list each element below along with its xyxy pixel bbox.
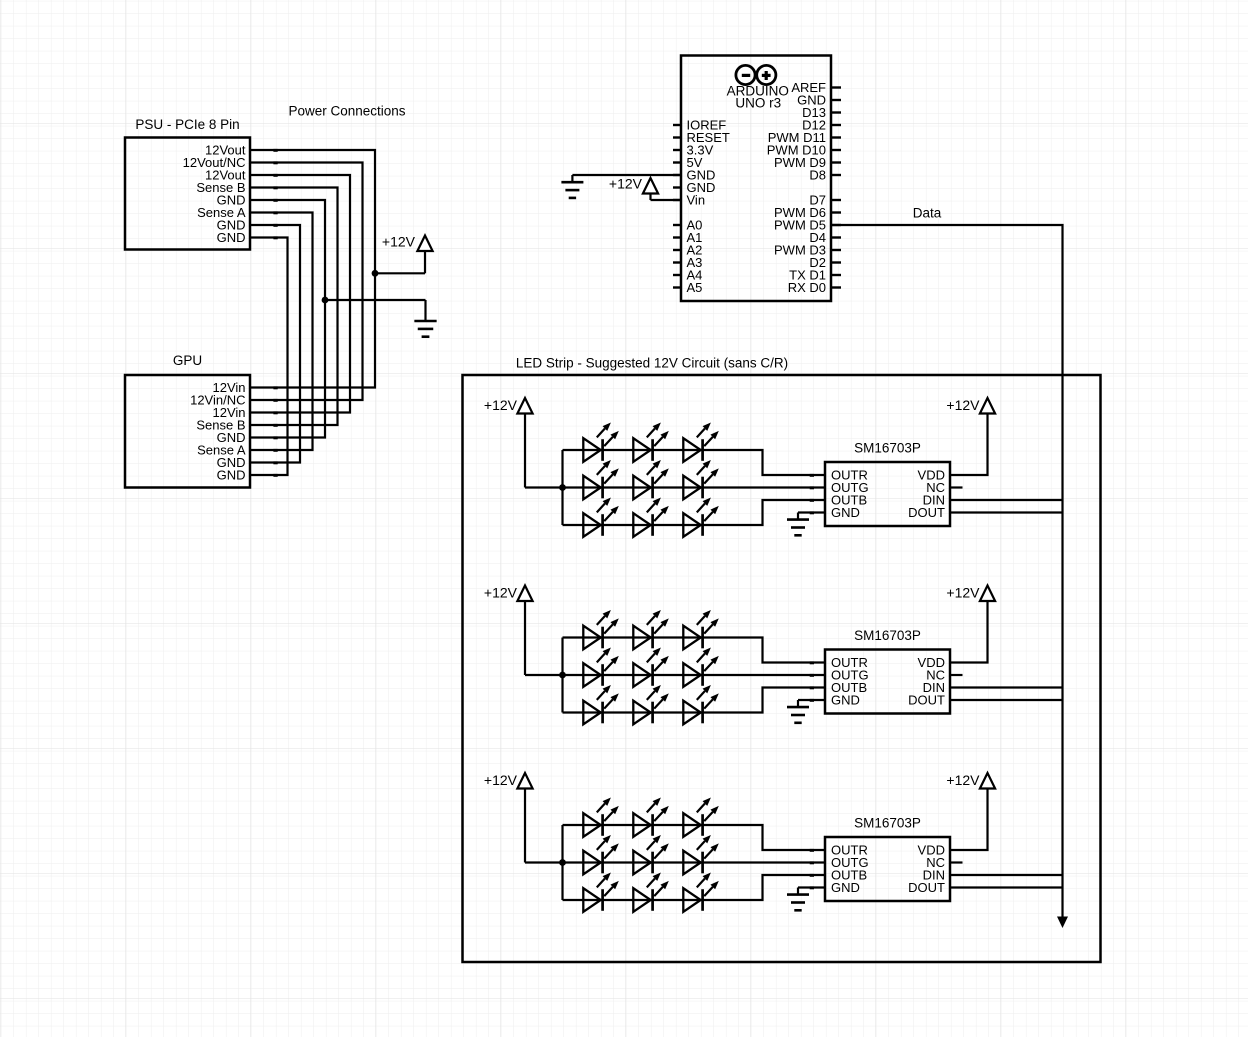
svg-text:SM16703P: SM16703P <box>854 441 921 456</box>
pin U1 right D13 <box>802 105 841 120</box>
svg-text:+12V: +12V <box>946 397 980 413</box>
wire DIN block1 <box>950 499 1063 501</box>
LED block3 row1 col2 <box>633 798 669 837</box>
pin J2.8 GND <box>217 468 246 483</box>
pin J2.2 12Vin/NC <box>190 393 245 408</box>
connector J1 PSU - PCIe 8 Pin <box>125 117 250 250</box>
pin U2.DIN <box>923 493 945 508</box>
pin U2.OUTR <box>810 468 868 483</box>
wire LED row3 block1 to OUTB <box>563 500 826 525</box>
pin U1 right RX D0 <box>788 280 841 295</box>
power +12V (PSU rail) <box>382 234 433 252</box>
pin U1 right PWM D9 <box>774 155 841 170</box>
LED block2 row3 col3 <box>683 685 719 724</box>
label Data <box>913 206 942 221</box>
LED block1 row1 col3 <box>683 423 719 462</box>
pin U2.OUTB <box>810 493 867 508</box>
pin U4.OUTB <box>810 868 867 883</box>
pin U1 right AREF <box>791 80 841 95</box>
LED block1 row1 col1 <box>583 423 619 462</box>
chip U2 SM16703P <box>825 441 950 527</box>
arrowhead end of chain <box>1057 917 1068 929</box>
label Power Connections <box>288 104 405 119</box>
svg-text:GND: GND <box>831 880 860 895</box>
pin U1 left 5V <box>673 155 703 170</box>
power +12V Vin <box>609 176 658 194</box>
LED block3 row3 col3 <box>683 873 719 912</box>
pin U1 right PWM D3 <box>774 243 841 258</box>
pin U2.OUTG <box>810 480 869 495</box>
pin U1 right GND <box>797 93 841 108</box>
pin U1 right D12 <box>802 118 841 133</box>
wire J1.2 to J2.2 <box>250 161 363 401</box>
wire GND block2 <box>798 699 825 701</box>
pin U4.OUTR <box>810 843 868 858</box>
pin U4.DIN <box>923 868 945 883</box>
svg-text:LED Strip - Suggested 12V Circ: LED Strip - Suggested 12V Circuit (sans … <box>516 356 788 371</box>
wire LED row1 block3 to OUTR <box>563 825 826 850</box>
wire VDD block3 <box>950 789 988 851</box>
svg-text:+12V: +12V <box>484 397 518 413</box>
wire DOUT block2 <box>950 699 1063 701</box>
pin U3.OUTR <box>810 655 868 670</box>
junction node LED rail block1 <box>559 484 566 491</box>
pin J2.6 Sense A <box>197 443 246 458</box>
ground PSU rail <box>414 321 436 337</box>
svg-text:+12V: +12V <box>484 585 518 601</box>
wire LED row2 block2 to OUTG <box>563 674 826 676</box>
pin J1.5 GND <box>217 193 246 208</box>
power +12V block1 right <box>946 397 995 413</box>
pin U4.GND <box>810 880 860 895</box>
pin U2.VDD <box>918 468 945 483</box>
LED block2 row1 col3 <box>683 610 719 649</box>
connector J2 GPU <box>125 353 250 488</box>
pin U1 right D8 <box>809 168 841 183</box>
pin U1 right D4 <box>809 230 841 245</box>
wire DIN block2 <box>950 686 1063 688</box>
pin U2.GND <box>810 505 860 520</box>
svg-text:GND: GND <box>217 468 246 483</box>
LED block1 row2 col2 <box>633 460 669 499</box>
svg-text:Power Connections: Power Connections <box>288 104 405 119</box>
LED block2 row2 col1 <box>583 648 619 687</box>
LED block1 row3 col1 <box>583 498 619 537</box>
wire J1.8 to J2.8 <box>250 236 288 476</box>
wire J1.6 to J2.6 <box>250 211 313 451</box>
pin U1 left GND <box>673 180 715 195</box>
pin U3.DOUT <box>908 693 945 708</box>
pin U1 right TX D1 <box>789 268 841 283</box>
LED block1 row1 col2 <box>633 423 669 462</box>
svg-text:RX D0: RX D0 <box>788 280 826 295</box>
LED strip container box <box>463 375 1101 962</box>
power +12V block3 right <box>946 772 995 788</box>
label ARDUINO UNO r3 <box>727 84 789 111</box>
power +12V block1 left <box>484 397 533 487</box>
LED block3 row2 col3 <box>683 835 719 874</box>
junction node LED rail block2 <box>559 672 566 679</box>
label LED Strip - Suggested 12V Circuit (sans C/R) <box>516 356 788 371</box>
pin U1 left A1 <box>673 230 702 245</box>
pin U3.VDD <box>918 655 945 670</box>
LED block3 row2 col1 <box>583 835 619 874</box>
wire +12V feed block3 <box>525 861 563 863</box>
wire LED row1 block2 to OUTR <box>563 638 826 663</box>
LED block3 row3 col2 <box>633 873 669 912</box>
pin U1 left Vin <box>673 193 705 208</box>
svg-text:DOUT: DOUT <box>908 505 945 520</box>
wire VDD block1 <box>950 414 988 476</box>
pin U1 left A0 <box>673 218 702 233</box>
wire +12V feed block1 <box>525 486 563 488</box>
LED block1 row2 col3 <box>683 460 719 499</box>
power +12V block3 left <box>484 772 533 862</box>
svg-text:DOUT: DOUT <box>908 880 945 895</box>
pin J1.1 12Vout <box>205 143 246 158</box>
wire LED row2 block3 to OUTG <box>563 861 826 863</box>
svg-text:Vin: Vin <box>687 193 706 208</box>
wire NC stub block2 <box>950 674 963 676</box>
pin U3.NC <box>926 668 945 683</box>
ground block3 <box>787 888 809 911</box>
LED block3 row3 col1 <box>583 873 619 912</box>
ground block2 <box>787 700 809 723</box>
pin U3.GND <box>810 693 860 708</box>
wire LED rail vertical block3 <box>561 825 563 900</box>
svg-text:D8: D8 <box>809 168 826 183</box>
pin J2.4 Sense B <box>196 418 245 433</box>
pin U1 right PWM D5 <box>774 218 841 233</box>
pin U1 right D2 <box>809 255 841 270</box>
LED block2 row1 col2 <box>633 610 669 649</box>
pin U2.DOUT <box>908 505 945 520</box>
LED block1 row3 col2 <box>633 498 669 537</box>
wire J1.4 to J2.4 <box>250 186 338 426</box>
wire LED rail vertical block2 <box>561 638 563 713</box>
svg-text:Data: Data <box>913 206 942 221</box>
pin U3.OUTB <box>810 680 867 695</box>
wire NC stub block3 <box>950 861 963 863</box>
pin J1.6 Sense A <box>197 205 246 220</box>
wire LED row3 block3 to OUTB <box>563 875 826 900</box>
LED block3 row1 col1 <box>583 798 619 837</box>
wire Data D5 to LED chain (vertical bus x=1062.5) <box>831 225 1063 918</box>
pin U1 right PWM D11 <box>768 130 841 145</box>
pin U3.OUTG <box>810 668 869 683</box>
wire J1.7 to J2.7 <box>250 224 300 464</box>
pin U1 left GND <box>673 168 715 183</box>
svg-text:GPU: GPU <box>173 353 202 368</box>
wire LED row2 block1 to OUTG <box>563 486 826 488</box>
LED block1 row2 col1 <box>583 460 619 499</box>
svg-text:A5: A5 <box>687 280 703 295</box>
LED block2 row2 col2 <box>633 648 669 687</box>
wire J1.3 to J2.3 <box>250 174 350 414</box>
pin J1.3 12Vout <box>205 168 246 183</box>
pin U1 left 3.3V <box>673 143 714 158</box>
junction node GND tap <box>322 297 329 304</box>
Arduino logo <box>736 65 776 84</box>
pin U1 left IOREF <box>673 118 726 133</box>
pin U4.OUTG <box>810 855 869 870</box>
wire LED rail vertical block1 <box>561 450 563 525</box>
wire LED row3 block2 to OUTB <box>563 688 826 713</box>
pin U1 right PWM D10 <box>767 143 841 158</box>
power +12V block2 left <box>484 585 533 675</box>
pin U1 left A3 <box>673 255 702 270</box>
wire U1 Vin to +12V <box>651 194 682 201</box>
LED block3 row2 col2 <box>633 835 669 874</box>
pin U2.NC <box>926 480 945 495</box>
LED block1 row3 col3 <box>683 498 719 537</box>
pin U1 right PWM D6 <box>774 205 841 220</box>
LED block2 row2 col3 <box>683 648 719 687</box>
svg-text:PSU - PCIe 8 Pin: PSU - PCIe 8 Pin <box>135 117 239 132</box>
wire ground tap <box>325 300 426 321</box>
LED block2 row3 col1 <box>583 685 619 724</box>
pin U4.DOUT <box>908 880 945 895</box>
pin J1.2 12Vout/NC <box>183 155 246 170</box>
wire J1.1 to J2.1 <box>250 149 375 389</box>
pin J1.4 Sense B <box>196 180 245 195</box>
power +12V block2 right <box>946 585 995 601</box>
svg-text:SM16703P: SM16703P <box>854 628 921 643</box>
pin U4.NC <box>926 855 945 870</box>
pin J2.5 GND <box>217 430 246 445</box>
LED block2 row3 col2 <box>633 685 669 724</box>
pin J1.8 GND <box>217 230 246 245</box>
pin J2.1 12Vin <box>212 380 245 395</box>
wire LED row1 block1 to OUTR <box>563 450 826 475</box>
svg-text:+12V: +12V <box>484 772 518 788</box>
wire GND block3 <box>798 886 825 888</box>
wire NC stub block1 <box>950 486 963 488</box>
pin U1 left A4 <box>673 268 702 283</box>
ground U1 <box>561 175 583 198</box>
wire DOUT block3 <box>950 886 1063 888</box>
MCU U1 ARDUINO UNO r3 body <box>681 56 831 302</box>
LED block2 row1 col1 <box>583 610 619 649</box>
pin J1.7 GND <box>217 218 246 233</box>
chip U3 SM16703P <box>825 628 950 714</box>
svg-text:GND: GND <box>831 693 860 708</box>
pin U1 left A5 <box>673 280 702 295</box>
wire DOUT block1 <box>950 511 1063 513</box>
svg-text:GND: GND <box>217 230 246 245</box>
pin U4.VDD <box>918 843 945 858</box>
svg-text:GND: GND <box>831 505 860 520</box>
svg-text:DOUT: DOUT <box>908 693 945 708</box>
ground block1 <box>787 513 809 536</box>
svg-text:+12V: +12V <box>382 234 416 250</box>
wire GND block1 <box>798 511 825 513</box>
junction node LED rail block3 <box>559 859 566 866</box>
svg-text:UNO r3: UNO r3 <box>735 96 781 111</box>
pin U1 left RESET <box>673 130 730 145</box>
svg-text:+12V: +12V <box>609 176 643 192</box>
junction node +12V tap <box>372 270 379 277</box>
pin J2.3 12Vin <box>212 405 245 420</box>
wire DIN block3 <box>950 874 1063 876</box>
chip U4 SM16703P <box>825 816 950 902</box>
wire U1 GND to ground <box>572 174 681 176</box>
wire +12V tap <box>375 251 425 273</box>
svg-text:+12V: +12V <box>946 772 980 788</box>
svg-text:SM16703P: SM16703P <box>854 816 921 831</box>
wire VDD block2 <box>950 601 988 663</box>
pin U3.DIN <box>923 680 945 695</box>
wire +12V feed block2 <box>525 674 563 676</box>
pin U1 right D7 <box>809 193 841 208</box>
wire J1.5 to J2.5 <box>250 199 325 439</box>
LED block3 row1 col3 <box>683 798 719 837</box>
pin U1 left A2 <box>673 243 702 258</box>
svg-text:+12V: +12V <box>946 585 980 601</box>
pin J2.7 GND <box>217 455 246 470</box>
